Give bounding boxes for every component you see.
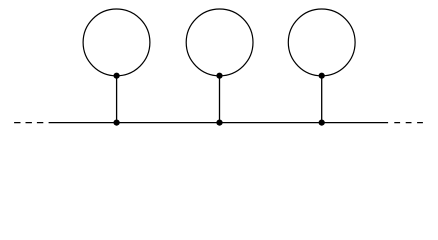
loop L3: tadpole circle 3 xyxy=(288,9,355,76)
loop L1: tadpole circle 1 xyxy=(83,9,150,76)
node A3: vertex at bottom of loop 3 xyxy=(319,73,325,79)
node B2: vertex on propagator line 2 xyxy=(216,120,222,126)
node B1: vertex on propagator line 1 xyxy=(114,120,120,126)
wire: right dashed lead of propagator line xyxy=(394,122,423,124)
node B3: vertex on propagator line 3 xyxy=(319,120,325,126)
node A2: vertex at bottom of loop 2 xyxy=(216,73,222,79)
wire: solid propagator line xyxy=(49,122,389,124)
loop L2: tadpole circle 2 xyxy=(186,9,253,76)
wire: vertical stem 2 xyxy=(219,76,221,123)
node A1: vertex at bottom of loop 1 xyxy=(114,73,120,79)
wire: left dashed lead of propagator line xyxy=(14,122,44,124)
wire: vertical stem 1 xyxy=(116,76,118,123)
wire: vertical stem 3 xyxy=(321,76,323,123)
